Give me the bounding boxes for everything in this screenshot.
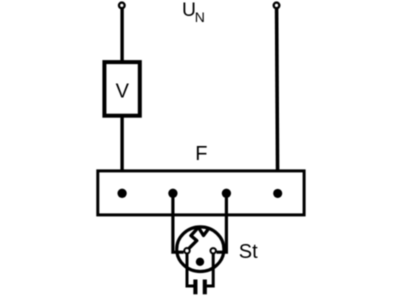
plug body right wall and base <box>207 253 214 287</box>
wire from right terminal to box F <box>277 8 278 193</box>
svg-text:St: St <box>239 241 258 263</box>
junction dot 4 <box>273 189 282 198</box>
release / trip zigzag inside plug <box>189 227 208 248</box>
junction dot 2 <box>168 189 177 198</box>
wire from box F to plug right pin <box>217 191 227 252</box>
wire from voltmeter to box F <box>120 116 123 194</box>
plug body left wall and base <box>187 253 194 287</box>
terminal circle left <box>119 3 125 9</box>
wire from box F to plug left pin <box>173 191 184 252</box>
junction dot 1 <box>117 189 126 198</box>
plug prong right <box>203 280 207 295</box>
terminal circle right <box>274 3 280 9</box>
junction dot 3 <box>222 189 231 198</box>
plug prong left <box>193 280 197 295</box>
voltmeter V1 box <box>104 62 139 116</box>
plug earth contact dot <box>196 258 204 266</box>
distribution box F <box>98 171 304 215</box>
plug pin left <box>184 248 189 253</box>
wire from left terminal to voltmeter <box>120 8 123 62</box>
svg-text:V: V <box>116 80 130 102</box>
svg-text:F: F <box>195 143 207 165</box>
svg-text:N: N <box>195 9 205 25</box>
plug St outer circle <box>177 227 224 272</box>
plug pin right <box>211 248 216 253</box>
